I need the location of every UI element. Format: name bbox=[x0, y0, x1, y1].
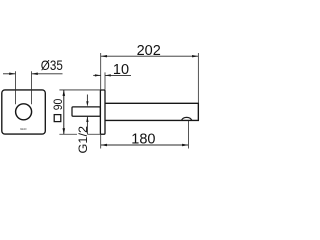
svg-text:10: 10 bbox=[113, 62, 129, 78]
svg-text:Ø35: Ø35 bbox=[41, 57, 63, 73]
svg-text:180: 180 bbox=[131, 131, 155, 147]
svg-text:KEUCO: KEUCO bbox=[20, 127, 27, 131]
svg-text:90: 90 bbox=[53, 99, 65, 111]
svg-text:202: 202 bbox=[137, 43, 161, 59]
svg-text:G1/2: G1/2 bbox=[76, 126, 90, 154]
